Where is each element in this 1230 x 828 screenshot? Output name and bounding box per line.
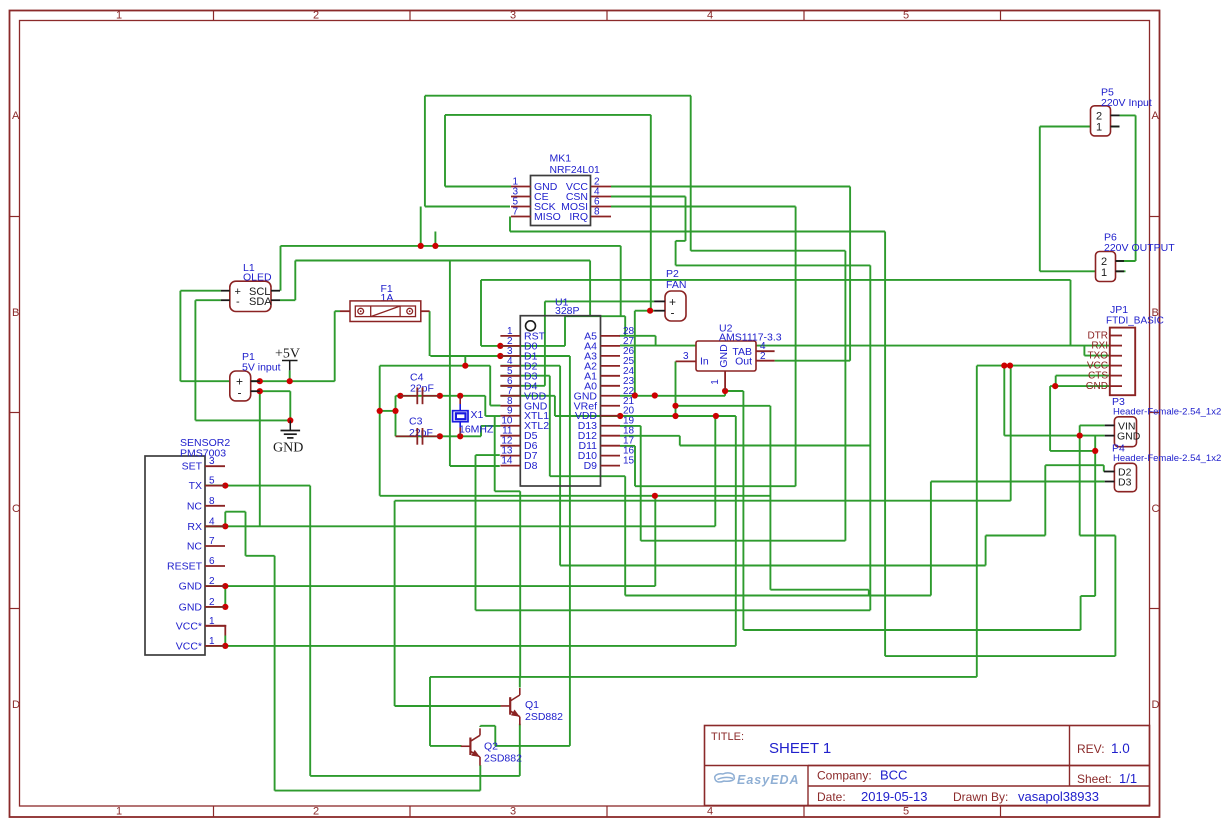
svg-text:OLED: OLED <box>243 272 272 284</box>
svg-text:1: 1 <box>116 10 122 22</box>
svg-text:VCC*: VCC* <box>176 640 202 652</box>
svg-text:NRF24L01: NRF24L01 <box>550 165 600 176</box>
svg-text:D: D <box>1152 699 1160 711</box>
svg-text:2: 2 <box>313 806 319 818</box>
svg-text:MISO: MISO <box>534 211 561 223</box>
svg-text:Header-Female-2.54_1x2: Header-Female-2.54_1x2 <box>1113 407 1221 418</box>
svg-text:1: 1 <box>1096 122 1102 134</box>
svg-text:4: 4 <box>707 806 713 818</box>
svg-text:EasyEDA: EasyEDA <box>737 773 800 787</box>
svg-text:GND: GND <box>1117 431 1141 443</box>
svg-text:MK1: MK1 <box>550 153 572 165</box>
svg-text:AMS1117-3.3: AMS1117-3.3 <box>719 332 782 344</box>
svg-text:8: 8 <box>594 207 600 218</box>
svg-text:SHEET 1: SHEET 1 <box>769 740 831 757</box>
svg-text:GND: GND <box>179 601 203 613</box>
svg-text:vasapol38933: vasapol38933 <box>1018 789 1099 804</box>
svg-text:3: 3 <box>510 806 516 818</box>
svg-text:7: 7 <box>512 207 518 218</box>
svg-text:5: 5 <box>903 10 909 22</box>
svg-text:CTS: CTS <box>1088 371 1108 382</box>
svg-text:-: - <box>238 386 242 400</box>
svg-text:7: 7 <box>209 536 215 547</box>
svg-text:1: 1 <box>1101 267 1107 279</box>
svg-text:IRQ: IRQ <box>569 211 588 223</box>
svg-text:D9: D9 <box>584 460 598 472</box>
svg-text:14: 14 <box>501 456 513 467</box>
svg-text:NC: NC <box>187 541 203 553</box>
svg-text:328P: 328P <box>555 305 580 317</box>
svg-text:Date:: Date: <box>817 790 846 804</box>
svg-text:FAN: FAN <box>666 279 686 291</box>
svg-text:4: 4 <box>707 10 713 22</box>
svg-text:C: C <box>12 503 20 515</box>
svg-text:1/1: 1/1 <box>1119 771 1137 786</box>
svg-text:NC: NC <box>187 500 203 512</box>
svg-text:Q2: Q2 <box>484 741 498 753</box>
svg-text:X1: X1 <box>471 409 484 421</box>
svg-text:GND: GND <box>1086 381 1108 392</box>
svg-text:2: 2 <box>209 576 215 587</box>
svg-text:16MHZ: 16MHZ <box>459 424 494 436</box>
svg-text:2: 2 <box>313 10 319 22</box>
svg-text:220V Input: 220V Input <box>1101 97 1152 109</box>
svg-text:1: 1 <box>209 636 215 647</box>
svg-text:1: 1 <box>116 806 122 818</box>
svg-text:REV:: REV: <box>1077 742 1105 756</box>
svg-text:1: 1 <box>710 379 721 385</box>
svg-text:Q1: Q1 <box>525 699 539 711</box>
svg-text:C: C <box>1152 503 1160 515</box>
svg-text:B: B <box>12 307 19 319</box>
svg-text:TX: TX <box>189 480 202 492</box>
svg-text:5V input: 5V input <box>242 362 281 374</box>
svg-text:D3: D3 <box>1118 477 1132 489</box>
svg-text:3: 3 <box>683 351 689 362</box>
svg-text:2SD882: 2SD882 <box>484 752 522 764</box>
svg-text:4: 4 <box>209 516 215 527</box>
svg-text:GND: GND <box>718 344 730 368</box>
svg-text:In: In <box>700 356 709 368</box>
svg-text:RX: RX <box>187 521 202 533</box>
svg-text:2019-05-13: 2019-05-13 <box>861 789 928 804</box>
svg-text:220V OUTPUT: 220V OUTPUT <box>1104 242 1175 254</box>
svg-text:5: 5 <box>903 806 909 818</box>
svg-text:A: A <box>1152 110 1160 122</box>
svg-text:-: - <box>671 306 675 320</box>
svg-text:RESET: RESET <box>167 561 203 573</box>
svg-text:5: 5 <box>209 476 215 487</box>
svg-text:3: 3 <box>510 10 516 22</box>
svg-text:C3: C3 <box>409 416 423 428</box>
svg-text:BCC: BCC <box>880 768 907 783</box>
svg-text:+5V: +5V <box>275 347 300 362</box>
svg-text:FTDI_BASIC: FTDI_BASIC <box>1106 316 1164 327</box>
svg-text:2SD882: 2SD882 <box>525 711 563 723</box>
svg-text:D: D <box>12 699 20 711</box>
svg-text:-: - <box>236 296 240 308</box>
svg-text:JP1: JP1 <box>1110 304 1128 316</box>
svg-text:2: 2 <box>209 597 215 608</box>
svg-text:Sheet:: Sheet: <box>1077 772 1112 786</box>
svg-text:Company:: Company: <box>817 769 872 783</box>
svg-text:3: 3 <box>209 456 215 467</box>
svg-text:1.0: 1.0 <box>1111 741 1130 756</box>
svg-text:8: 8 <box>209 496 215 507</box>
svg-text:Drawn By:: Drawn By: <box>953 790 1008 804</box>
svg-text:VCC*: VCC* <box>176 620 202 632</box>
svg-text:6: 6 <box>209 556 215 567</box>
svg-text:Header-Female-2.54_1x2: Header-Female-2.54_1x2 <box>1113 453 1221 464</box>
svg-text:PMS7003: PMS7003 <box>180 448 226 460</box>
svg-text:Out: Out <box>735 356 752 368</box>
svg-text:GND: GND <box>273 441 303 456</box>
svg-text:SDA: SDA <box>249 296 272 308</box>
svg-text:A: A <box>12 110 20 122</box>
svg-text:SET: SET <box>182 461 203 473</box>
svg-text:15: 15 <box>623 456 635 467</box>
svg-text:D8: D8 <box>524 460 538 472</box>
svg-text:GND: GND <box>179 581 203 593</box>
svg-text:TITLE:: TITLE: <box>711 731 744 743</box>
